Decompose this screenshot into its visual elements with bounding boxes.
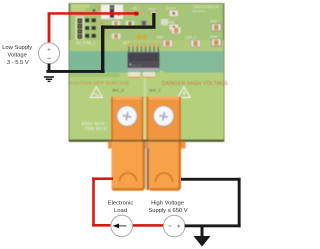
svg-text:CAUTION HOT SURFACE: CAUTION HOT SURFACE bbox=[69, 81, 129, 86]
U1 pin pads bbox=[128, 43, 160, 46]
PCB board base bbox=[69, 4, 224, 142]
svg-text:Supply ≤ 650 V: Supply ≤ 650 V bbox=[148, 208, 187, 214]
U1 bottom pads bbox=[128, 72, 140, 77]
V1 plus mark bbox=[47, 48, 50, 51]
red lead arrowhead at VS pad bbox=[134, 12, 139, 16]
warning triangle high voltage bbox=[178, 87, 190, 97]
U1 pins bbox=[128, 47, 159, 52]
earth ground symbol stem bbox=[201, 227, 204, 237]
voltage source V2 high voltage circle bbox=[163, 215, 185, 237]
PCB lower light-green isolation zone bbox=[70, 40, 224, 52]
voltage source V1 low supply circle bbox=[39, 43, 60, 64]
terminal block J2 upper body (right, on board) bbox=[146, 97, 181, 141]
terminal block J1 upper body (left, on board) bbox=[111, 97, 143, 141]
pad P3 bbox=[161, 19, 168, 25]
svg-text:Electronic: Electronic bbox=[108, 201, 134, 207]
wire: black horizontal to GND pad column bbox=[101, 26, 156, 29]
V1 minus mark bbox=[47, 57, 51, 59]
wire: black vertical rise on board bbox=[101, 25, 104, 73]
resistor pair row 3 bbox=[85, 34, 96, 38]
PCB board bottom edge shadow bbox=[69, 140, 224, 142]
svg-text:VOUT: VOUT bbox=[167, 6, 176, 10]
screw right bbox=[153, 106, 174, 127]
component D1 inside connector box bbox=[110, 5, 114, 18]
V2 plus mark bbox=[177, 225, 180, 228]
wire: black return lead from right terminal bbox=[181, 178, 241, 181]
label: High Voltage Supply <= 650 V bbox=[148, 201, 187, 214]
terminal block J2 lower body collar bbox=[149, 141, 186, 148]
resistor C5 gray bbox=[141, 20, 148, 26]
wire: red between load and HV supply bbox=[132, 224, 163, 227]
svg-text:3 - 5.5 V: 3 - 5.5 V bbox=[7, 60, 29, 66]
svg-text:Low Supply: Low Supply bbox=[2, 45, 32, 51]
resistor R5 bbox=[172, 27, 180, 33]
op-amp U1 (isolated amplifier IC) bbox=[128, 43, 160, 78]
svg-text:AMC1311: AMC1311 bbox=[131, 64, 143, 68]
wire: black negative horizontal into board bbox=[46, 70, 104, 73]
wire: red high-side lead to left terminal bbox=[92, 177, 113, 180]
wire: red vertical down left side bbox=[92, 177, 95, 226]
terminal block J1 lower body (below board) bbox=[112, 142, 146, 191]
resistor pair row 2 bbox=[85, 26, 96, 30]
svg-text:DANGER HIGH VOLTAGE: DANGER HIGH VOLTAGE bbox=[162, 81, 229, 87]
wire: black vertical up to GND pad bbox=[152, 13, 155, 28]
connector silkscreen box (top-left white) bbox=[101, 5, 123, 20]
U1 body bbox=[128, 52, 160, 68]
wire: black bottom horizontal to HV supply bbox=[185, 224, 241, 227]
earth ground symbol arrow bbox=[194, 236, 211, 247]
capacitor C3 bbox=[126, 21, 134, 26]
svg-text:SH1_1: SH1_1 bbox=[149, 88, 161, 92]
via pads gold pair bbox=[136, 34, 141, 39]
gap shading between terminal lower bodies bbox=[145, 149, 147, 191]
teal copper region C-block bbox=[70, 51, 224, 73]
svg-text:Voltage: Voltage bbox=[8, 53, 27, 59]
resistor pair row 1 bbox=[85, 18, 96, 22]
wire: red supply positive lead (horizontal to VS pad) bbox=[48, 12, 138, 15]
svg-text:SJ2P_J: SJ2P_J bbox=[185, 36, 196, 40]
svg-text:650V MAX: 650V MAX bbox=[82, 121, 106, 126]
label: Low Supply Voltage 3 - 5.5 V bbox=[2, 45, 32, 66]
board bottom edge line over terminals bbox=[69, 140, 224, 142]
svg-text:VS: VS bbox=[133, 6, 137, 10]
screw left bbox=[117, 106, 138, 127]
V2 minus mark bbox=[168, 225, 171, 227]
svg-text:SJ_PGA_J: SJ_PGA_J bbox=[77, 41, 96, 45]
svg-text:GND: GND bbox=[156, 36, 164, 40]
terminal block J1 lower body collar bbox=[108, 141, 146, 148]
electronic load circle bbox=[111, 215, 133, 237]
ground symbol left bbox=[44, 76, 54, 82]
wire: red supply positive lead (vertical) bbox=[48, 13, 51, 43]
resistor R4 bbox=[112, 34, 121, 39]
resistor R3 bbox=[112, 21, 120, 26]
svg-text:GND: GND bbox=[210, 35, 218, 39]
wire: black vertical down right side bbox=[238, 178, 241, 227]
silkscreen blur top-left corner bbox=[71, 5, 90, 8]
svg-text:Load: Load bbox=[114, 208, 127, 214]
header J5 pins bbox=[78, 19, 83, 39]
svg-text:3V3: 3V3 bbox=[85, 23, 90, 27]
PCB isolation slot between terminals bbox=[144, 72, 147, 140]
svg-text:75W MAX: 75W MAX bbox=[85, 126, 107, 131]
svg-text:GND: GND bbox=[210, 20, 218, 24]
svg-text:(Bottom): (Bottom) bbox=[193, 9, 205, 13]
electronic load arrow bbox=[113, 224, 127, 229]
warning triangle hot surface bbox=[90, 87, 102, 97]
terminal block J2 lower body (below board) bbox=[149, 142, 181, 191]
svg-text:SH1_2: SH1_2 bbox=[112, 88, 124, 92]
svg-text:High Voltage: High Voltage bbox=[151, 201, 184, 207]
wire: red bottom horizontal to electronic load bbox=[92, 224, 111, 227]
header J5 silkscreen outline bbox=[76, 17, 84, 39]
wire: black supply negative stem bbox=[48, 64, 51, 72]
via gold dots bbox=[97, 7, 106, 33]
gold pad in connector box bbox=[118, 13, 121, 16]
label: Electronic Load bbox=[108, 201, 134, 214]
